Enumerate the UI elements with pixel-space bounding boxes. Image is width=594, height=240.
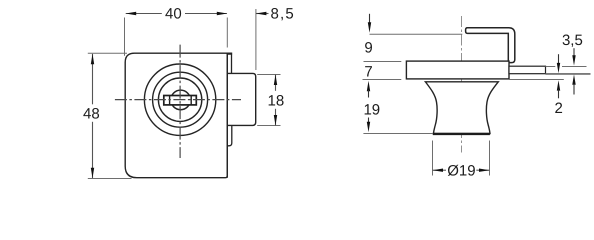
svg-text:8,5: 8,5 (271, 5, 295, 22)
svg-text:40: 40 (165, 5, 182, 22)
svg-text:3,5: 3,5 (562, 32, 583, 49)
svg-text:9: 9 (364, 39, 372, 56)
svg-text:48: 48 (83, 105, 100, 122)
svg-text:2: 2 (555, 100, 563, 117)
svg-text:Ø19: Ø19 (447, 163, 475, 180)
svg-text:18: 18 (268, 92, 285, 109)
svg-text:19: 19 (363, 102, 380, 119)
svg-text:7: 7 (364, 64, 372, 81)
